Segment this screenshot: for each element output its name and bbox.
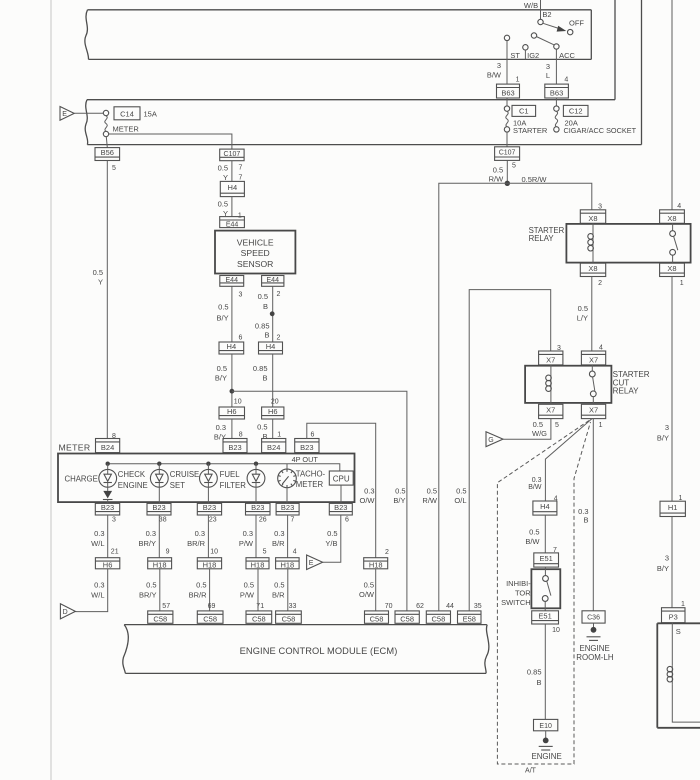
- svg-text:ROOM-LH: ROOM-LH: [576, 653, 614, 662]
- svg-text:B: B: [263, 302, 268, 311]
- svg-text:3: 3: [665, 423, 669, 432]
- svg-text:0.85: 0.85: [253, 364, 268, 373]
- svg-text:E58: E58: [463, 615, 476, 624]
- svg-text:B: B: [583, 516, 588, 525]
- svg-text:70: 70: [385, 603, 393, 610]
- label 0.3 BR/Y: [138, 529, 156, 548]
- svg-text:26: 26: [259, 516, 267, 523]
- connector E44 (VSS top): [220, 217, 245, 229]
- svg-text:3: 3: [546, 62, 550, 71]
- svg-text:METER: METER: [296, 480, 324, 489]
- page scan edge artifact: [50, 0, 52, 780]
- svg-text:0.5: 0.5: [257, 423, 267, 432]
- svg-text:B56: B56: [101, 148, 114, 157]
- wire H4 to E51: [544, 515, 546, 553]
- connector C107 (meter feed): [220, 149, 244, 161]
- wire 0.5 BR/Y to C58-57: [159, 569, 161, 611]
- fuse C1: [504, 106, 509, 132]
- connector B23 (4P out): [295, 439, 319, 453]
- junction rail tap CHECK ENGINE: [157, 462, 161, 466]
- connector C58 (pin70): [365, 611, 389, 624]
- connector B63 (ST): [497, 84, 520, 98]
- svg-text:E44: E44: [226, 222, 239, 229]
- svg-text:B/Y: B/Y: [215, 374, 227, 383]
- svg-text:4: 4: [564, 77, 568, 84]
- label 0.5 O/W: [359, 580, 375, 599]
- svg-text:O/L: O/L: [454, 496, 466, 505]
- starter motor box: [657, 623, 700, 728]
- svg-text:C36: C36: [587, 615, 600, 622]
- svg-text:STARTER: STARTER: [513, 126, 548, 135]
- wire 0.5 L/Y X8 to X7: [591, 277, 593, 352]
- svg-text:B23: B23: [281, 503, 294, 512]
- svg-text:W/L: W/L: [91, 539, 104, 548]
- connector H18 (P/W): [246, 558, 269, 570]
- svg-text:7: 7: [239, 175, 243, 182]
- svg-text:FILTER: FILTER: [220, 481, 247, 490]
- svg-text:5: 5: [512, 163, 516, 170]
- starter solenoid lead 2: [672, 684, 700, 722]
- connector E51 (bottom): [532, 611, 559, 624]
- label 0.3 B/Y: [214, 423, 226, 441]
- svg-text:4: 4: [599, 344, 603, 351]
- connector H18 (BR/Y): [148, 558, 172, 570]
- svg-text:G: G: [488, 437, 493, 444]
- svg-text:9: 9: [166, 549, 170, 556]
- svg-text:0.3: 0.3: [364, 487, 374, 496]
- label 0.5 Y/B: [325, 529, 337, 548]
- wire IG2 stub: [524, 50, 526, 60]
- svg-text:CPU: CPU: [333, 474, 350, 483]
- label 0.5 BR/R: [189, 581, 208, 600]
- svg-text:B: B: [262, 374, 267, 383]
- wire 0.3 B/R: [287, 515, 289, 558]
- wire 0.5 Y/B to E triangle: [323, 515, 341, 562]
- wire 0.3 B X7 to C36: [592, 419, 594, 611]
- wire E to fuse C14: [74, 112, 103, 114]
- label 3 B/W: [487, 61, 502, 80]
- connector B23 (fuel filter): [246, 503, 271, 515]
- svg-text:P3: P3: [669, 613, 678, 622]
- svg-text:Y: Y: [223, 173, 228, 182]
- svg-text:B: B: [262, 432, 267, 441]
- svg-text:H18: H18: [153, 561, 167, 570]
- svg-text:0.5: 0.5: [427, 487, 437, 496]
- connector P3: [662, 608, 686, 623]
- svg-text:0.3: 0.3: [146, 529, 156, 538]
- wire E44-3 to H4: [231, 286, 233, 342]
- svg-text:B/Y: B/Y: [214, 432, 226, 441]
- svg-text:C12: C12: [569, 107, 583, 116]
- svg-text:TACHO-: TACHO-: [296, 470, 326, 479]
- ignition rotor contact: [531, 33, 536, 38]
- svg-text:6: 6: [239, 334, 243, 341]
- meter box: [58, 454, 355, 503]
- destination triangle E (Y/B): [307, 555, 323, 570]
- connector H18 (B/R): [276, 558, 300, 570]
- svg-text:B23: B23: [152, 503, 165, 512]
- label INHIBITOR SWITCH: [501, 579, 531, 607]
- svg-text:5: 5: [555, 422, 559, 429]
- label 0.3 BR/R: [187, 529, 206, 548]
- svg-text:BR/R: BR/R: [189, 591, 208, 600]
- wire 0.5 Y from B56 to meter B24: [106, 161, 108, 439]
- svg-text:X7: X7: [546, 405, 555, 414]
- svg-text:0.3: 0.3: [94, 529, 104, 538]
- dashed A/T boundary: [497, 421, 590, 775]
- svg-text:B: B: [536, 678, 541, 687]
- connector E44 (VSS out left): [220, 276, 244, 287]
- fuse C12: [554, 106, 559, 132]
- wire fuel filter lamp to B23: [255, 487, 257, 503]
- svg-text:Y: Y: [98, 278, 103, 287]
- svg-text:H18: H18: [251, 561, 265, 570]
- svg-text:BR/Y: BR/Y: [138, 539, 156, 548]
- wire W/B from page top to ignition B2: [540, 0, 542, 19]
- svg-text:B23: B23: [334, 503, 347, 512]
- starter cut relay coil lead 2: [550, 394, 552, 404]
- fuse C1 label box: [512, 105, 536, 116]
- label 0.5 W/G and pin 5: [532, 420, 559, 438]
- label 0.5 R/W: [489, 165, 505, 183]
- wire C1 to C107: [506, 132, 508, 147]
- svg-text:O/W: O/W: [360, 496, 376, 505]
- label 0.5 Y: [218, 200, 228, 218]
- label 0.5 B: [258, 292, 268, 311]
- svg-text:H4: H4: [266, 342, 276, 351]
- wire 0.85 B to E10: [544, 624, 546, 719]
- svg-text:SWITCH: SWITCH: [501, 598, 531, 607]
- label 0.5 Y: [93, 268, 103, 287]
- destination triangle G: [486, 432, 503, 447]
- fuse C12 label box: [563, 105, 588, 116]
- svg-text:7: 7: [239, 165, 243, 172]
- svg-text:C107: C107: [499, 150, 516, 157]
- svg-text:6: 6: [310, 432, 314, 439]
- svg-text:O/W: O/W: [359, 590, 375, 599]
- svg-text:D: D: [63, 609, 68, 616]
- junction splice B/Y branch: [230, 389, 235, 394]
- wire H4 to H6: [272, 354, 274, 407]
- connector X8 (coil+): [580, 210, 605, 224]
- starter relay coil: [588, 233, 594, 254]
- svg-text:H18: H18: [280, 561, 294, 570]
- svg-text:H6: H6: [268, 407, 278, 416]
- svg-text:X7: X7: [589, 405, 598, 414]
- indicator lamp CHARGE: [99, 464, 117, 488]
- svg-text:ENGINE: ENGINE: [531, 752, 561, 761]
- svg-text:B23: B23: [251, 503, 264, 512]
- svg-text:TOR: TOR: [515, 588, 531, 597]
- wire 0.5 O/W to C58-70: [375, 569, 377, 611]
- svg-text:INHIBI-: INHIBI-: [506, 579, 531, 588]
- fuse C14 label box: [114, 107, 140, 120]
- svg-text:E: E: [62, 111, 67, 118]
- svg-text:L: L: [546, 71, 550, 80]
- label 0.3 W/L: [91, 581, 104, 600]
- connector X7 (coil-): [539, 404, 563, 418]
- svg-text:B/Y: B/Y: [657, 434, 669, 443]
- wire 0.3 BR/Y: [158, 515, 160, 558]
- svg-text:0.5: 0.5: [196, 581, 206, 590]
- junction 0.5 R/W: [505, 181, 510, 186]
- destination triangle D: [60, 604, 75, 619]
- svg-text:3: 3: [665, 554, 669, 563]
- svg-text:ACC: ACC: [559, 51, 575, 60]
- wire 4P out B23 up-over-down to H18: [307, 423, 376, 558]
- svg-text:2: 2: [385, 549, 389, 556]
- connector X7 (contact in): [581, 351, 605, 365]
- svg-text:0.5: 0.5: [258, 292, 268, 301]
- svg-text:P/W: P/W: [239, 539, 254, 548]
- svg-text:H6: H6: [227, 407, 237, 416]
- svg-text:B/Y: B/Y: [657, 564, 669, 573]
- svg-text:R/W: R/W: [489, 175, 505, 184]
- svg-text:SPEED: SPEED: [241, 248, 270, 258]
- svg-text:4: 4: [293, 549, 297, 556]
- label 0.5 B/Y: [217, 303, 229, 323]
- svg-text:0.5: 0.5: [395, 487, 405, 496]
- svg-text:X8: X8: [667, 264, 676, 273]
- wire H4 to E44: [231, 197, 233, 217]
- connector B24 (speedo signal B): [262, 439, 286, 453]
- svg-text:0.3: 0.3: [195, 529, 205, 538]
- starter solenoid coil: [667, 666, 673, 685]
- wire ST to B63: [506, 41, 508, 85]
- svg-text:0.5: 0.5: [274, 581, 284, 590]
- connector H18 (O/W): [364, 558, 388, 570]
- svg-text:23: 23: [209, 516, 217, 523]
- wire H4 to H6 with branch: [231, 354, 233, 407]
- label 0.5 B/W: [525, 527, 540, 545]
- fuse C14 15A METER: [103, 110, 108, 136]
- starter relay coil lead 2: [592, 254, 594, 263]
- label 0.5 B/Y (speedo branch wire): [393, 487, 405, 506]
- connector B23 (speedo signal): [223, 439, 247, 453]
- ignition switch box (top band): [85, 10, 591, 60]
- connector B23 (cruise): [197, 503, 221, 515]
- svg-text:L/Y: L/Y: [577, 314, 588, 323]
- svg-text:0.5R/W: 0.5R/W: [522, 175, 548, 184]
- connector C58 (pin44): [426, 611, 450, 624]
- fuse box band (right x641.5 / bottom y144.5): [85, 0, 641, 145]
- svg-text:0.5: 0.5: [244, 581, 254, 590]
- connector E44 (VSS out right): [262, 276, 284, 287]
- label 0.5 P/W: [240, 581, 255, 600]
- svg-text:RELAY: RELAY: [613, 386, 640, 395]
- harness box edge (right x615): [87, 0, 615, 100]
- svg-text:1: 1: [680, 280, 684, 287]
- connector C58 (pin57): [148, 611, 173, 624]
- wire 3 B/Y X8 to H1: [671, 277, 673, 502]
- starter relay coil lead: [592, 223, 594, 233]
- svg-text:METER: METER: [113, 124, 140, 133]
- wire H6 to meter B23: [231, 419, 233, 439]
- wire ACC to B63: [555, 49, 557, 84]
- connector X8 (batt): [660, 210, 685, 224]
- svg-text:B: B: [264, 331, 269, 340]
- label 0.85 B: [527, 668, 542, 688]
- svg-text:C1: C1: [519, 107, 529, 116]
- svg-text:20: 20: [271, 398, 279, 405]
- splice wire size change: [270, 311, 275, 316]
- wire check engine lamp to B23: [158, 487, 160, 503]
- svg-text:10: 10: [552, 627, 560, 634]
- svg-text:P/W: P/W: [240, 591, 255, 600]
- wire 0.5 B/R to C58-33: [287, 569, 289, 611]
- svg-text:0.3: 0.3: [243, 529, 253, 538]
- svg-text:H6: H6: [103, 561, 113, 570]
- wire H6 to meter B24: [272, 419, 274, 439]
- wire 0.5 R/W to ECM C58-44: [439, 183, 508, 611]
- label 3 B/Y: [657, 554, 669, 574]
- label 0.3 O/W (4P out wire): [360, 487, 376, 506]
- inhibitor switch box: [531, 567, 560, 611]
- svg-text:B63: B63: [501, 89, 514, 98]
- connector H4 (VSS feed): [220, 181, 244, 196]
- svg-text:B23: B23: [228, 443, 241, 452]
- wire B63 to fuse C12: [555, 98, 557, 106]
- svg-text:38: 38: [159, 516, 167, 523]
- connector X7 (coil+): [539, 351, 563, 365]
- svg-text:CHARGE: CHARGE: [64, 474, 97, 483]
- destination triangle E (to fuse C14): [60, 107, 74, 121]
- svg-text:0.3: 0.3: [94, 581, 104, 590]
- wire E44-2 to H4: [272, 286, 274, 342]
- svg-text:10: 10: [210, 549, 218, 556]
- connector H6 (speedo B): [262, 407, 284, 419]
- starter cut relay contact: [589, 365, 596, 404]
- connector H6 (speedo B/Y): [219, 407, 245, 419]
- connector E58 (pin35): [458, 611, 482, 624]
- connector C58 (pin71): [246, 611, 272, 624]
- svg-text:21: 21: [111, 549, 119, 556]
- wire B63 to fuse C1: [506, 98, 508, 106]
- svg-text:H18: H18: [203, 561, 217, 570]
- charge warning diode: [103, 487, 113, 503]
- svg-text:B24: B24: [267, 443, 280, 452]
- label TACHO-METER: [296, 470, 326, 490]
- wire H6 to D triangle: [75, 569, 107, 612]
- svg-text:H4: H4: [228, 183, 238, 192]
- svg-text:ENGINE: ENGINE: [579, 644, 609, 653]
- svg-text:10: 10: [234, 398, 242, 405]
- label FUEL FILTER: [220, 470, 247, 490]
- indicator lamp CHECK ENGINE: [150, 464, 168, 488]
- svg-text:15A: 15A: [144, 110, 157, 119]
- wire 0.5 BR/R to C58-69: [209, 569, 211, 611]
- svg-text:0.85: 0.85: [527, 668, 542, 677]
- connector X8 (coil-): [580, 263, 605, 276]
- svg-text:8: 8: [239, 432, 243, 439]
- svg-text:METER: METER: [59, 443, 91, 453]
- svg-text:B/W: B/W: [525, 537, 540, 546]
- svg-text:0.5: 0.5: [364, 580, 374, 589]
- svg-text:3: 3: [497, 61, 501, 70]
- svg-text:BR/Y: BR/Y: [139, 591, 157, 600]
- label 0.5 BR/Y: [139, 581, 157, 600]
- terminal ST: [504, 35, 509, 40]
- svg-text:2: 2: [276, 334, 280, 341]
- indicator lamp FUEL FILTER: [247, 464, 265, 488]
- svg-text:SET: SET: [170, 481, 185, 490]
- connector H4 (speedo B/Y): [219, 342, 244, 354]
- svg-text:B/R: B/R: [272, 539, 285, 548]
- svg-text:E51: E51: [539, 554, 552, 563]
- svg-text:69: 69: [208, 603, 216, 610]
- svg-text:VEHICLE: VEHICLE: [237, 238, 274, 248]
- svg-text:W/L: W/L: [91, 591, 104, 600]
- starter cut relay coil: [546, 375, 552, 395]
- connector B23 (cpu Y/B): [329, 503, 352, 515]
- svg-text:H4: H4: [540, 502, 550, 511]
- svg-text:E44: E44: [267, 277, 280, 284]
- svg-text:0.5: 0.5: [529, 527, 539, 536]
- svg-text:E: E: [309, 560, 314, 567]
- connector C58 (pin62): [395, 611, 419, 624]
- svg-text:0.5: 0.5: [456, 487, 466, 496]
- svg-text:ENGINE CONTROL MODULE (ECM): ENGINE CONTROL MODULE (ECM): [240, 646, 398, 656]
- svg-text:71: 71: [256, 603, 264, 610]
- connector H4 (speedo B): [259, 342, 283, 354]
- svg-text:C107: C107: [224, 151, 241, 158]
- svg-text:1: 1: [516, 77, 520, 84]
- connector H6 (W/L): [95, 558, 119, 570]
- junction rail tap CHARGE: [106, 462, 110, 466]
- svg-text:3: 3: [239, 291, 243, 298]
- connector B24 (charge feed): [96, 439, 120, 453]
- label 0.3 B: [578, 507, 588, 525]
- svg-text:C58: C58: [153, 615, 167, 624]
- wire G to X7 pin5: [503, 419, 551, 440]
- svg-text:B24: B24: [101, 443, 114, 452]
- svg-text:35: 35: [474, 603, 482, 610]
- label 0.3 W/L: [91, 529, 104, 548]
- svg-text:0.3: 0.3: [274, 529, 284, 538]
- label STARTER CUT RELAY: [613, 370, 650, 395]
- svg-text:B23: B23: [300, 443, 313, 452]
- label 0.5 R/W (ECM start signal): [422, 487, 438, 506]
- starter relay box: [566, 224, 690, 263]
- svg-text:W/B: W/B: [524, 1, 538, 10]
- svg-text:R/W: R/W: [422, 496, 438, 505]
- svg-text:CRUISE: CRUISE: [170, 470, 199, 479]
- wire ECM E58-35 to starter cut relay coil: [469, 290, 551, 611]
- svg-text:0.5: 0.5: [578, 304, 588, 313]
- svg-text:0.3: 0.3: [216, 423, 226, 432]
- svg-text:1: 1: [277, 432, 281, 439]
- label 3 L: [546, 62, 550, 80]
- svg-text:C58: C58: [432, 615, 446, 624]
- connector B23 (tacho): [276, 503, 299, 515]
- svg-text:X7: X7: [546, 355, 555, 364]
- svg-text:S: S: [676, 627, 681, 636]
- svg-text:44: 44: [446, 603, 454, 610]
- svg-text:1: 1: [599, 422, 603, 429]
- svg-text:X8: X8: [667, 214, 676, 223]
- svg-text:C58: C58: [252, 615, 266, 624]
- svg-text:C58: C58: [400, 615, 414, 624]
- svg-text:H18: H18: [369, 561, 383, 570]
- svg-text:E44: E44: [226, 277, 239, 284]
- starter solenoid lead: [671, 623, 673, 666]
- meter CPU box: [329, 471, 353, 485]
- indicator lamp CRUISE SET: [200, 464, 218, 488]
- svg-text:B63: B63: [550, 89, 563, 98]
- svg-text:5: 5: [112, 165, 116, 172]
- svg-text:0.85: 0.85: [255, 321, 270, 330]
- svg-text:0.5: 0.5: [533, 420, 543, 429]
